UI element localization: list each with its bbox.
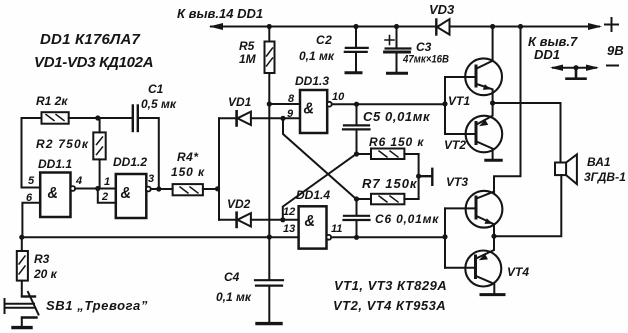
- capacitor C2: [299, 27, 368, 73]
- wire VD2 to pin12: [251, 219, 299, 221]
- svg-text:VT2: VT2: [444, 138, 466, 152]
- node pin9/crosslink: [280, 116, 285, 121]
- node rail-R5: [267, 24, 272, 29]
- svg-text:9: 9: [287, 108, 294, 120]
- resistor R6 body: [371, 149, 404, 160]
- ground bar under C4: [257, 322, 281, 325]
- resistor R7: [357, 176, 419, 204]
- crosslink pin9 to R7: [283, 118, 356, 199]
- resistor R2 body: [99, 118, 101, 132]
- svg-text:&: &: [305, 213, 316, 230]
- svg-text:10: 10: [332, 91, 345, 103]
- svg-text:DD1.3: DD1.3: [295, 74, 329, 88]
- svg-text:R6 150 к: R6 150 к: [369, 135, 424, 149]
- svg-text:12: 12: [283, 206, 295, 218]
- transistor VT4 body: [465, 251, 501, 287]
- svg-text:К выв.14 DD1: К выв.14 DD1: [177, 6, 263, 21]
- transistor VT1: [448, 27, 502, 109]
- svg-text:0,5 мк: 0,5 мк: [141, 97, 177, 111]
- svg-text:VT3: VT3: [446, 175, 468, 189]
- node pin8 junction: [267, 101, 272, 106]
- svg-text:&: &: [304, 101, 315, 118]
- svg-text:11: 11: [331, 223, 342, 235]
- capacitor C3 electrolytic: [385, 27, 449, 74]
- svg-text:VD1: VD1: [228, 95, 252, 109]
- resistor R5 body: [268, 27, 270, 42]
- top rail wire left of VD3: [211, 26, 435, 28]
- node pin1/R2 junction: [95, 186, 100, 191]
- svg-text:VT1: VT1: [448, 94, 470, 108]
- resistor R7 body: [371, 194, 404, 205]
- resistor R1 body: [42, 112, 69, 124]
- plus mark of C3: [385, 36, 394, 45]
- node on minus rail: [573, 65, 578, 70]
- diode VD2: [227, 197, 251, 227]
- svg-text:DD1 К176ЛА7: DD1 К176ЛА7: [40, 31, 141, 48]
- capacitor C2 body: [355, 27, 357, 48]
- wire base VT3: [445, 207, 476, 209]
- svg-text:С1: С1: [148, 82, 164, 96]
- transistor VT3 body: [466, 191, 503, 228]
- wire base link VT3-VT4: [444, 208, 446, 267]
- gate DD1.4: [283, 188, 342, 249]
- gate DD1.3 body: [300, 90, 327, 133]
- svg-text:150 к: 150 к: [171, 165, 205, 179]
- svg-text:DD1.1: DD1.1: [38, 157, 72, 171]
- svg-text:VT1, VT3 КТ829А: VT1, VT3 КТ829А: [334, 278, 447, 293]
- gate DD1.3: [287, 74, 345, 133]
- wire to VD1: [219, 117, 236, 119]
- speaker BA1 body: [555, 163, 566, 176]
- node VT3 emitter / VT4 emitter: [491, 234, 496, 239]
- svg-text:R1 2к: R1 2к: [36, 94, 68, 108]
- node rail-VT3 feed: [518, 24, 523, 29]
- diode VD2 body: [235, 213, 238, 227]
- battery plus sign: [605, 18, 618, 31]
- svg-text:С5 0,01мк: С5 0,01мк: [363, 109, 431, 124]
- wire R6-R7 right link: [418, 154, 420, 199]
- capacitor C5 body: [356, 104, 358, 124]
- svg-text:4: 4: [75, 175, 82, 187]
- wire rail to VT3 collector: [494, 27, 521, 193]
- ground tick under C3: [388, 72, 407, 75]
- svg-text:8: 8: [288, 93, 295, 105]
- resistor R4: [171, 150, 205, 195]
- ground bar under SB1: [13, 326, 31, 329]
- capacitor C4 body: [255, 279, 283, 281]
- wire base VT4: [445, 267, 476, 269]
- wire pin10 to bases VT1/VT2: [332, 103, 445, 105]
- wire pins 1-2 tie: [98, 189, 116, 203]
- ground tick under minus rail: [567, 68, 586, 79]
- capacitor C5: [343, 104, 431, 154]
- svg-text:13: 13: [283, 223, 295, 235]
- wire R5 bottom to C4 (vertical bus x=269): [268, 73, 270, 279]
- arrow right to battery plus: [588, 23, 602, 30]
- svg-text:1: 1: [104, 176, 110, 188]
- svg-text:0,1 мк: 0,1 мк: [299, 49, 335, 63]
- minus rail wire with arrows: [553, 67, 596, 69]
- node R6 left: [354, 151, 359, 156]
- alarm bus wire to pin13: [22, 236, 299, 238]
- svg-text:2: 2: [101, 191, 108, 203]
- svg-text:VT2, VT4 КТ953А: VT2, VT4 КТ953А: [333, 298, 446, 313]
- svg-text:VD2: VD2: [227, 197, 251, 211]
- svg-text:47мк×16В: 47мк×16В: [402, 54, 449, 66]
- node rail-VT1 collector: [490, 24, 495, 29]
- pushbutton SB1: [5, 292, 148, 328]
- svg-text:ВА1: ВА1: [587, 155, 611, 169]
- svg-text:R2 750к: R2 750к: [36, 137, 89, 151]
- node base tie VT3/VT4: [442, 234, 447, 239]
- svg-text:С6 0,01мк: С6 0,01мк: [375, 212, 439, 226]
- ground tick right: [419, 169, 433, 185]
- node R7 left: [354, 196, 359, 201]
- node R4/link: [215, 186, 220, 191]
- node rail-C3: [394, 24, 399, 29]
- node C5 top: [354, 102, 359, 107]
- transistor VT2 body: [466, 116, 503, 153]
- node rail-C2: [353, 24, 358, 29]
- wire bases VT1/VT2: [445, 77, 476, 134]
- wire VD1 to pin9: [251, 117, 300, 119]
- svg-text:VD3: VD3: [429, 2, 455, 17]
- gate DD1.1: [26, 157, 82, 217]
- wire to VD2: [219, 219, 236, 221]
- svg-text:3ГДВ-1: 3ГДВ-1: [584, 170, 626, 184]
- gate DD1.1 body: [40, 173, 70, 218]
- svg-text:9В: 9В: [607, 43, 624, 58]
- svg-text:1М: 1М: [239, 52, 257, 66]
- gate DD1.2 body: [116, 174, 147, 218]
- resistor R3: [17, 237, 58, 296]
- ground bar under VT4: [481, 293, 504, 296]
- battery minus sign: [607, 65, 618, 67]
- svg-text:R3: R3: [34, 252, 50, 266]
- svg-text:&: &: [121, 185, 132, 202]
- svg-text:DD1.2: DD1.2: [113, 155, 147, 169]
- svg-text:SB1 „Тревога”: SB1 „Тревога”: [46, 298, 148, 313]
- transistor VT3: [446, 175, 502, 236]
- capacitor C6: [344, 199, 440, 237]
- wire lower output to speaker bottom: [494, 175, 561, 236]
- svg-text:5: 5: [28, 175, 35, 187]
- pushbutton SB1 body: [22, 295, 35, 297]
- node base tie VT1/VT2: [442, 101, 447, 106]
- capacitor C3 body: [396, 27, 398, 48]
- svg-text:3: 3: [148, 173, 154, 185]
- svg-text:DD1.4: DD1.4: [296, 188, 330, 202]
- svg-text:VT4: VT4: [507, 265, 529, 279]
- ground bar under VT2: [486, 159, 501, 162]
- wire pin3 to R4: [151, 188, 173, 190]
- capacitor C4: [216, 270, 283, 324]
- svg-text:С2: С2: [316, 33, 332, 47]
- wire DD1.1 out to DD1.2 in: [75, 188, 116, 190]
- wire left loop to pin5: [22, 118, 42, 188]
- svg-text:20 к: 20 к: [33, 267, 58, 281]
- diode VD1 body: [235, 111, 238, 125]
- wire pin6 to alarm bus: [22, 203, 40, 237]
- node alarm bus left: [19, 235, 24, 240]
- wire pin8: [269, 103, 300, 105]
- diode VD3: [429, 2, 455, 35]
- node pin12/crosslink: [280, 217, 285, 222]
- ground tick under C2: [346, 71, 361, 74]
- speaker BA1: [555, 154, 626, 184]
- transistor VT2: [444, 103, 502, 160]
- gate DD1.4 body: [299, 206, 327, 248]
- resistor R4 body: [173, 184, 203, 195]
- gate DD1.2: [101, 155, 154, 218]
- svg-text:DD1: DD1: [534, 47, 560, 62]
- resistor R3 body: [21, 237, 23, 251]
- node C6 bottom: [354, 235, 359, 240]
- resistor R5: [239, 27, 275, 74]
- svg-text:0,1 мк: 0,1 мк: [216, 290, 252, 304]
- wire C1 right down to pin3 node: [139, 118, 159, 189]
- diode VD1: [228, 95, 252, 126]
- resistor R1: [36, 94, 69, 124]
- wire output node to speaker top: [493, 103, 561, 163]
- capacitor C1: [133, 82, 177, 131]
- svg-text:R5: R5: [239, 39, 255, 53]
- transistor VT4: [465, 236, 529, 295]
- node tick junction: [416, 174, 421, 179]
- wire R1 to C1: [69, 117, 132, 119]
- wire pin11 to bases VT3/VT4: [331, 236, 445, 238]
- svg-text:VD1-VD3 КД102А: VD1-VD3 КД102А: [34, 54, 153, 71]
- capacitor C6 body: [356, 199, 358, 215]
- node R1/R2 junction: [95, 115, 100, 120]
- diode VD3 body: [435, 20, 437, 35]
- svg-text:С4: С4: [224, 270, 240, 284]
- wire link vertical VD1-VD2: [218, 118, 220, 220]
- crosslink pin12 to R6: [283, 154, 356, 220]
- wire R4 to VD1/VD2 link: [203, 188, 219, 190]
- transistor VT1 body: [465, 58, 502, 95]
- arrow left on top rail: [209, 23, 223, 30]
- node VT1 emitter / VT2 emitter: [490, 100, 495, 105]
- capacitor C1 body: [132, 106, 134, 132]
- svg-text:&: &: [48, 185, 59, 202]
- svg-text:R7 150к: R7 150к: [362, 176, 418, 191]
- resistor R2: [36, 118, 106, 189]
- resistor R6: [357, 135, 425, 159]
- svg-text:С3: С3: [416, 40, 432, 54]
- node C1/pin3: [156, 186, 161, 191]
- svg-text:R4*: R4*: [177, 150, 199, 164]
- top rail wire right of VD3: [450, 26, 600, 28]
- node pin13 junction: [267, 234, 272, 239]
